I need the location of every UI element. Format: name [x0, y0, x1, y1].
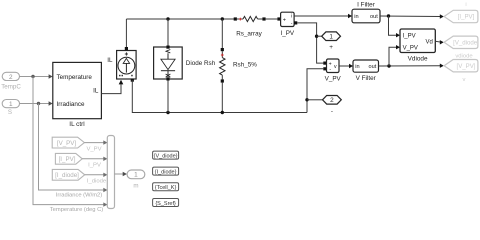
svg-text:V_PV: V_PV — [86, 146, 101, 152]
svg-text:{V_diode}: {V_diode} — [154, 153, 178, 159]
voltage sensor V_PV — [323, 59, 339, 73]
svg-text:V_PV: V_PV — [403, 45, 418, 51]
wire I_PV i output to I Filter — [294, 15, 349, 17]
svg-text:out: out — [370, 14, 378, 20]
node junction above Rsh — [221, 17, 224, 20]
svg-text:I_diode: I_diode — [87, 179, 107, 185]
svg-text:Irradiance: Irradiance — [57, 101, 85, 108]
svg-text:Rs_array: Rs_array — [236, 30, 262, 37]
goto tag [V_PV] — [444, 60, 478, 72]
svg-text:{Tcell_K}: {Tcell_K} — [155, 185, 177, 191]
svg-text:-: - — [329, 67, 331, 73]
svg-text:[I_diode]: [I_diode] — [55, 172, 79, 179]
connection port 2 (PV-) — [323, 96, 342, 105]
wire S to IL ctrl — [20, 103, 50, 105]
svg-text:in: in — [354, 14, 358, 20]
from tag [V_PV] — [52, 137, 84, 148]
from tag [I_diode] — [52, 169, 84, 180]
svg-text:I_PV: I_PV — [403, 33, 416, 39]
node junction above diode — [166, 17, 169, 20]
current source IL — [117, 47, 137, 82]
wire from tag I_PV to mux input 2 — [82, 158, 104, 160]
svg-text:v: v — [463, 77, 466, 83]
goto tag {Tcell_K} — [153, 183, 179, 191]
wire V_PV v output to V Filter — [339, 65, 350, 67]
node junction to port 1 — [315, 35, 318, 38]
resistor Rsh_5% (vertical) — [220, 48, 225, 83]
svg-text:[I_PV]: [I_PV] — [59, 156, 76, 163]
svg-text:{S_Sref}: {S_Sref} — [155, 201, 176, 207]
svg-text:V Filter: V Filter — [356, 75, 377, 82]
wire diode bottom to rail — [167, 81, 169, 113]
svg-text:[V_PV]: [V_PV] — [457, 63, 476, 70]
svg-text:TempC: TempC — [1, 83, 21, 90]
wire IL signal from IL ctrl to current source — [101, 84, 121, 93]
wire from tag V_PV to mux input 1 — [84, 142, 103, 144]
input port 2 (TempC) — [2, 72, 19, 81]
resistor Rs_array (horizontal) — [234, 16, 266, 21]
wire Rs_array to I_PV plus — [266, 18, 278, 20]
mux — [107, 136, 114, 209]
svg-text:Temperature: Temperature — [57, 74, 93, 81]
wire branch down to Vdiode I_PV input — [389, 16, 397, 35]
wire TempC to IL ctrl — [20, 76, 50, 78]
svg-text:1: 1 — [134, 172, 138, 179]
svg-text:i: i — [465, 2, 466, 8]
svg-text:+: + — [329, 44, 333, 51]
diode block Diode Rsh — [154, 46, 183, 81]
svg-text:Vdiode: Vdiode — [408, 55, 428, 62]
svg-text:2: 2 — [330, 97, 334, 104]
svg-text:Vd: Vd — [425, 40, 432, 46]
node junction after V Filter — [387, 64, 390, 67]
svg-text:I_PV: I_PV — [88, 163, 101, 169]
wire V_PV minus down to negative rail — [307, 69, 323, 113]
output port 1 (m) — [127, 170, 145, 179]
transfer block I Filter — [352, 9, 380, 23]
svg-text:V_PV: V_PV — [325, 75, 342, 82]
goto tag {V_diode} — [153, 151, 179, 159]
node junction under Rsh — [221, 111, 224, 114]
current sensor I_PV — [277, 12, 297, 27]
svg-text:+: + — [283, 18, 286, 24]
wire current source top to positive rail — [125, 19, 127, 47]
wire rail down to diode top — [167, 19, 169, 46]
wire positive top rail — [126, 18, 234, 20]
svg-text:i: i — [291, 13, 292, 19]
svg-text:IL: IL — [93, 88, 99, 95]
node junction under diode — [166, 111, 169, 114]
wire branch up to Vdiode V_PV input — [389, 47, 397, 66]
wire TempC branch down to mux input 5 — [33, 77, 104, 205]
wire I_PV minus to node P — [297, 23, 323, 63]
svg-text:I_PV: I_PV — [280, 30, 294, 37]
goto tag {S_Sref} — [153, 199, 179, 207]
svg-text:[I_PV]: [I_PV] — [458, 14, 475, 21]
svg-text:[V_diode]: [V_diode] — [453, 40, 479, 47]
wire V Filter out to goto V_PV — [379, 65, 441, 67]
node junction on S wire — [37, 102, 40, 105]
connection port 1 (PV+) — [322, 32, 341, 41]
svg-text:Diode Rsh: Diode Rsh — [186, 60, 216, 67]
wire node P to port 1 — [317, 35, 322, 37]
svg-text:Rsh_5%: Rsh_5% — [233, 61, 257, 68]
node junction to port 2 — [305, 98, 308, 101]
goto tag {I_diode} — [153, 167, 179, 175]
node junction on TempC wire — [31, 75, 34, 78]
svg-text:in: in — [355, 64, 359, 70]
svg-text:IL ctrl: IL ctrl — [69, 121, 84, 128]
wire rail down to Rsh top — [221, 19, 223, 48]
svg-text:m: m — [133, 183, 138, 190]
function block Vdiode — [400, 29, 435, 53]
goto tag [V_diode] — [444, 36, 479, 48]
svg-text:1: 1 — [9, 101, 13, 108]
wire negative bottom rail — [132, 80, 307, 113]
svg-text:[V_PV]: [V_PV] — [57, 140, 77, 147]
svg-text:{I_diode}: {I_diode} — [155, 169, 177, 175]
wire node N to port 2 — [307, 99, 323, 101]
subsystem block IL ctrl — [53, 62, 102, 118]
wire mux output to outport m — [115, 173, 124, 175]
wire Vdiode Vd to goto V_diode — [435, 41, 440, 42]
svg-text:IL: IL — [107, 57, 113, 64]
svg-text:-: - — [331, 108, 333, 115]
svg-text:1: 1 — [329, 34, 333, 41]
svg-text:vdiode: vdiode — [455, 54, 473, 60]
wire S branch down to mux input 4 — [39, 104, 104, 191]
transfer block V Filter — [353, 60, 379, 72]
svg-text:S: S — [8, 109, 12, 116]
svg-text:Temperature (deg C): Temperature (deg C) — [50, 207, 104, 213]
svg-text:out: out — [369, 64, 377, 70]
svg-text:2: 2 — [9, 74, 13, 81]
wire I Filter out to goto I_PV — [380, 15, 440, 18]
from tag [I_PV] — [55, 153, 82, 164]
wire Rsh bottom to negative rail — [221, 83, 223, 113]
goto tag [I_PV] — [444, 10, 478, 22]
input port 1 (S) — [2, 100, 19, 109]
svg-text:Irradiance (W/m2): Irradiance (W/m2) — [56, 193, 102, 199]
svg-text:v: v — [334, 64, 337, 70]
wire from tag I_diode to mux input 3 — [85, 174, 104, 176]
node junction after I Filter — [387, 14, 390, 17]
svg-text:I Filter: I Filter — [357, 1, 376, 8]
